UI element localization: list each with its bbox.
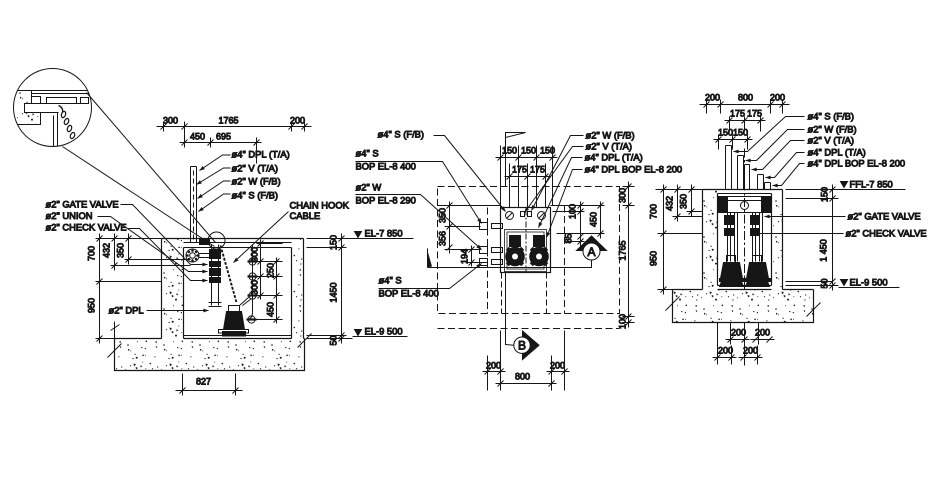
bottom dim extension lines R xyxy=(718,323,759,366)
pipe shoe xyxy=(209,303,222,307)
svg-text:CHAIN HOOK: CHAIN HOOK xyxy=(290,200,350,211)
svg-text:B: B xyxy=(518,339,526,353)
float cable xyxy=(248,245,253,320)
dim line 150/150 R xyxy=(714,137,753,143)
leader W xyxy=(198,181,231,199)
concrete left wall R xyxy=(703,191,718,290)
leader chain hook xyxy=(234,212,289,263)
svg-text:175: 175 xyxy=(747,109,762,119)
level EL-9 500 R xyxy=(839,280,900,288)
left dim line 700/950 R xyxy=(661,185,667,295)
section marker B xyxy=(514,331,539,360)
pit floor line xyxy=(184,335,292,337)
svg-text:ø4" DPL (T/A): ø4" DPL (T/A) xyxy=(232,149,290,160)
svg-text:350: 350 xyxy=(679,194,689,209)
float dim line col1 xyxy=(258,240,264,300)
dashed duct right vertical xyxy=(564,206,566,314)
wall vertical 2 xyxy=(53,116,55,147)
leader DPL xyxy=(200,155,231,171)
wall vertical xyxy=(57,113,59,147)
float switch 3 xyxy=(248,292,258,299)
chain hook xyxy=(59,106,63,113)
pump R left xyxy=(720,256,745,287)
dim line 175/175 R xyxy=(725,118,766,124)
bottom dim line 827 xyxy=(176,388,243,394)
svg-text:1765: 1765 xyxy=(218,116,238,126)
svg-text:BOP EL-8 290: BOP EL-8 290 xyxy=(356,195,416,206)
svg-text:BOP EL-8 400: BOP EL-8 400 xyxy=(379,288,439,299)
slab top line xyxy=(115,338,305,340)
leader union xyxy=(98,217,208,272)
leader V R xyxy=(752,141,805,170)
leader dpl ta xyxy=(539,158,583,228)
svg-text:300: 300 xyxy=(250,247,260,262)
leader s bop400 lower xyxy=(379,264,482,289)
svg-text:EL-9 500: EL-9 500 xyxy=(850,277,888,288)
dashed pit continuation right xyxy=(546,273,548,314)
svg-text:950: 950 xyxy=(87,298,97,313)
svg-text:200: 200 xyxy=(705,93,720,103)
svg-text:800: 800 xyxy=(515,372,530,382)
right dim line 150/1450/50 xyxy=(339,234,345,344)
pump plan right xyxy=(530,236,549,266)
left dim line 432 xyxy=(112,234,118,271)
svg-text:356: 356 xyxy=(438,231,448,246)
check body right xyxy=(751,229,760,236)
dashed duct left vertical xyxy=(487,208,489,314)
slab break left R xyxy=(666,297,680,311)
bottom dim line 800 xyxy=(496,381,557,387)
plan right dim extension lines xyxy=(551,206,605,242)
right dim line 150/1450/50 R xyxy=(830,185,836,291)
svg-text:200: 200 xyxy=(718,346,733,356)
svg-text:350: 350 xyxy=(438,208,448,223)
valve stack pipe xyxy=(212,245,219,306)
svg-text:200: 200 xyxy=(290,116,305,126)
float switch 4 xyxy=(247,316,257,323)
svg-text:50: 50 xyxy=(820,278,830,288)
slab outline xyxy=(115,339,305,371)
riser pipe S xyxy=(726,146,732,190)
svg-text:300: 300 xyxy=(618,188,628,203)
balloon leader line upper xyxy=(87,93,216,243)
svg-text:ø2" CHECK VALVE: ø2" CHECK VALVE xyxy=(46,222,127,233)
valve body right xyxy=(751,216,760,225)
svg-text:800: 800 xyxy=(738,93,753,103)
svg-text:CABLE: CABLE xyxy=(290,210,321,221)
svg-text:200: 200 xyxy=(486,361,501,371)
valve blob right top xyxy=(762,197,771,213)
concrete right wall xyxy=(292,239,304,339)
svg-text:ø4" DPL (T/A): ø4" DPL (T/A) xyxy=(808,147,866,158)
svg-text:ø2" W (F/B): ø2" W (F/B) xyxy=(586,130,635,141)
concrete base slab R xyxy=(673,290,814,323)
float switch 1 xyxy=(248,258,258,265)
pump R right xyxy=(746,256,771,287)
svg-text:200: 200 xyxy=(550,361,565,371)
flange fitting row3 xyxy=(480,259,503,266)
float dim extension lines xyxy=(257,244,283,320)
valve blob left top xyxy=(719,197,728,213)
svg-text:700: 700 xyxy=(87,246,97,261)
pennant flag xyxy=(506,133,526,138)
leader gate valve R xyxy=(765,216,846,218)
svg-text:200: 200 xyxy=(770,93,785,103)
svg-text:950: 950 xyxy=(649,251,659,266)
slab break mark left xyxy=(108,344,122,358)
leader s bop400 upper xyxy=(356,162,482,224)
ground top line xyxy=(162,238,304,240)
pipe stub circle right xyxy=(538,212,546,220)
svg-text:ø2" GATE VALVE: ø2" GATE VALVE xyxy=(46,199,119,210)
outer dashed boundary xyxy=(438,187,620,314)
pit interior top band xyxy=(718,194,772,213)
plan dim 450 xyxy=(598,202,604,239)
level EL-9 500 xyxy=(353,330,408,337)
svg-text:ø4" S (F/B): ø4" S (F/B) xyxy=(808,111,855,122)
pump plan left xyxy=(506,236,525,266)
lower flange xyxy=(210,278,221,283)
svg-text:432: 432 xyxy=(665,196,675,211)
cover frame seat xyxy=(32,97,41,104)
svg-text:ø4" S (F/B): ø4" S (F/B) xyxy=(378,129,425,140)
svg-text:ø4" S: ø4" S xyxy=(379,275,402,286)
plan dim 194 xyxy=(469,246,475,267)
leader W R xyxy=(746,130,805,161)
gate valve body xyxy=(210,250,221,259)
dim line 150x3 xyxy=(496,155,558,161)
concrete right wall R xyxy=(772,191,783,290)
pit wall edge xyxy=(41,112,59,114)
svg-text:300: 300 xyxy=(250,280,260,295)
cover plate top line xyxy=(32,90,91,92)
bottom dim row1 R xyxy=(726,337,775,343)
pit top line R xyxy=(703,189,783,191)
svg-text:ø2" W (F/B): ø2" W (F/B) xyxy=(808,124,857,135)
svg-text:150: 150 xyxy=(329,235,339,250)
cover underside line xyxy=(25,103,83,105)
svg-text:300: 300 xyxy=(163,116,178,126)
svg-text:50: 50 xyxy=(329,335,339,345)
svg-text:200: 200 xyxy=(731,328,746,338)
svg-text:FFL-7 850: FFL-7 850 xyxy=(850,179,893,190)
section marker A xyxy=(577,236,607,260)
pipe stub circle left xyxy=(506,212,514,220)
svg-text:175: 175 xyxy=(512,165,527,175)
svg-text:85: 85 xyxy=(564,233,574,243)
plan left dim extension lines xyxy=(438,206,501,263)
left dim extension lines xyxy=(96,239,191,339)
top dim extension lines R xyxy=(707,100,783,150)
level EL-7 850 xyxy=(353,232,414,239)
svg-text:100: 100 xyxy=(618,314,628,329)
bottom dim extension lines mid xyxy=(488,331,565,391)
dimension line 300/1765/200 xyxy=(157,124,312,130)
section line B xyxy=(506,273,515,346)
slab left upstand xyxy=(111,322,120,339)
svg-text:700: 700 xyxy=(649,204,659,219)
slab break mark right xyxy=(298,334,312,348)
centerline pole xyxy=(505,133,507,187)
check valve body xyxy=(210,269,221,276)
leader check valve R xyxy=(754,233,844,235)
section line A left end xyxy=(427,249,429,268)
leader v ta xyxy=(525,147,584,213)
bottom dim row2 R xyxy=(713,355,763,361)
dim line 200/800/200 R xyxy=(700,102,790,108)
center fittings plan xyxy=(521,212,532,217)
svg-text:ø2" V (T/A): ø2" V (T/A) xyxy=(586,141,633,152)
pit walls R xyxy=(703,190,783,290)
level FFL-7 850 xyxy=(839,182,906,190)
pit plan centerline xyxy=(525,210,527,272)
cover underside xyxy=(184,247,292,249)
balloon leader line lower xyxy=(63,147,215,247)
cover panel small xyxy=(81,98,89,104)
pump pipes right xyxy=(753,213,763,262)
concrete left wall xyxy=(162,239,184,339)
left dim extension lines R xyxy=(656,190,703,290)
svg-text:ø4" DPL BOP EL-8 200: ø4" DPL BOP EL-8 200 xyxy=(585,164,683,175)
leader gate valve xyxy=(121,205,208,265)
flange fitting row1 xyxy=(480,223,503,230)
concrete corner block xyxy=(14,91,41,125)
slab break right R xyxy=(807,303,821,317)
svg-text:450: 450 xyxy=(190,132,205,142)
svg-text:ø4" S: ø4" S xyxy=(356,148,379,159)
svg-text:150: 150 xyxy=(718,128,733,138)
leader V xyxy=(197,168,231,185)
float switch 2 xyxy=(248,273,258,280)
svg-text:EL-7 850: EL-7 850 xyxy=(365,228,403,239)
svg-text:200: 200 xyxy=(743,346,758,356)
right dim extension lines xyxy=(307,239,353,339)
mid right dim line 300/1765/100 xyxy=(626,182,632,328)
svg-text:250: 250 xyxy=(266,263,276,278)
dim line 175x2 xyxy=(505,174,551,180)
top dim extension lines xyxy=(501,146,553,208)
svg-text:450: 450 xyxy=(266,302,276,317)
svg-text:1450: 1450 xyxy=(329,282,339,302)
dashed pit continuation left xyxy=(501,273,503,314)
left dim line 350 R xyxy=(689,185,695,217)
pit outer wall outline xyxy=(162,239,304,339)
dimension line 450/695 xyxy=(180,140,262,146)
svg-text:EL-9 500: EL-9 500 xyxy=(365,326,403,337)
leader w bop290 xyxy=(356,195,482,250)
svg-text:200: 200 xyxy=(755,328,770,338)
svg-text:A: A xyxy=(587,245,595,259)
center dashed line R xyxy=(744,149,746,290)
section line A xyxy=(428,260,592,268)
svg-text:ø2" W: ø2" W xyxy=(356,182,382,193)
union body xyxy=(210,262,221,267)
svg-text:ø4" DPL BOP EL-8 200: ø4" DPL BOP EL-8 200 xyxy=(808,158,906,169)
riser pipe inner dashes xyxy=(193,171,195,241)
svg-text:150: 150 xyxy=(733,128,748,138)
leader check valve xyxy=(128,229,208,281)
svg-text:150: 150 xyxy=(540,146,555,156)
riser pipe DPL xyxy=(758,175,764,190)
check body left xyxy=(725,229,734,236)
svg-text:432: 432 xyxy=(102,243,112,258)
leader w fb xyxy=(532,136,584,211)
right dim extension lines R xyxy=(786,190,839,286)
slab outline R xyxy=(673,290,814,323)
pump pipes left xyxy=(728,213,738,262)
left dim line 700/950 xyxy=(97,234,103,344)
svg-text:150: 150 xyxy=(521,146,536,156)
pit plan inner rect xyxy=(505,230,547,272)
left dim line 350 xyxy=(126,234,132,265)
plan dim 350/356 xyxy=(447,202,453,254)
svg-text:ø2" DPL: ø2" DPL xyxy=(109,305,144,316)
lower dashed strip xyxy=(438,328,620,330)
concrete base slab xyxy=(115,339,305,371)
union flange circle xyxy=(186,249,199,262)
leader S xyxy=(199,194,231,212)
riser pipe V xyxy=(745,165,750,190)
bottom dim line 200s xyxy=(483,369,570,375)
svg-text:ø2" GATE VALVE: ø2" GATE VALVE xyxy=(848,211,921,222)
svg-text:827: 827 xyxy=(196,377,211,387)
flange fitting row2 xyxy=(480,247,503,254)
pit floor R xyxy=(718,285,772,287)
riser pipe xyxy=(191,167,197,243)
center fitting circle xyxy=(741,202,749,210)
pipe union to valve stack xyxy=(199,254,212,258)
svg-text:194: 194 xyxy=(460,249,470,264)
balloon circle xyxy=(14,69,92,147)
cover plate second line xyxy=(32,93,89,95)
leader dpl pipe xyxy=(147,310,209,312)
hook circle xyxy=(208,232,225,249)
leader DPL BOP R xyxy=(773,164,805,186)
chain to pump xyxy=(221,246,237,303)
svg-text:ø4" DPL (T/A): ø4" DPL (T/A) xyxy=(585,152,643,163)
top dim extension lines xyxy=(164,122,305,164)
interior fittings top xyxy=(721,197,769,201)
pump body xyxy=(219,297,252,337)
valve body left xyxy=(725,216,734,225)
svg-text:ø2" CHECK VALVE: ø2" CHECK VALVE xyxy=(846,228,927,239)
svg-text:ø2" V (T/A): ø2" V (T/A) xyxy=(232,163,279,174)
svg-text:175: 175 xyxy=(530,165,545,175)
leader DPL R xyxy=(766,153,805,178)
svg-text:BOP EL-8 400: BOP EL-8 400 xyxy=(356,161,416,172)
cover panel xyxy=(47,98,77,104)
plan dim 100/85 xyxy=(578,202,584,247)
svg-text:ø2" UNION: ø2" UNION xyxy=(46,210,93,221)
svg-text:150: 150 xyxy=(502,146,517,156)
leader s fb xyxy=(434,136,506,212)
riser pipe W xyxy=(738,156,744,190)
svg-text:ø2" V (T/A): ø2" V (T/A) xyxy=(808,135,855,146)
svg-text:1 450: 1 450 xyxy=(819,239,829,262)
float dim line col2 xyxy=(274,258,280,324)
svg-text:100: 100 xyxy=(568,204,578,219)
svg-text:175: 175 xyxy=(730,109,745,119)
svg-text:350: 350 xyxy=(116,243,126,258)
left dim line 432 R xyxy=(675,185,681,222)
cover plate line xyxy=(184,242,292,244)
svg-text:ø4" S (F/B): ø4" S (F/B) xyxy=(232,190,279,201)
svg-text:ø2" W (F/B): ø2" W (F/B) xyxy=(232,176,281,187)
pit plan outer rect xyxy=(501,208,551,273)
svg-text:1765: 1765 xyxy=(618,240,628,260)
chain links in balloon xyxy=(61,111,76,139)
slab top R xyxy=(673,289,814,291)
right dim extension lines mid xyxy=(623,187,635,323)
svg-text:695: 695 xyxy=(216,132,231,142)
leader S R xyxy=(734,117,805,152)
svg-text:450: 450 xyxy=(589,212,599,227)
svg-text:150: 150 xyxy=(820,187,830,202)
riser pipe DPL2 xyxy=(765,183,771,190)
cover penetration seal xyxy=(200,239,210,245)
leader dpl bop200 xyxy=(547,170,583,238)
bottom dim 827 extension lines xyxy=(183,374,236,396)
